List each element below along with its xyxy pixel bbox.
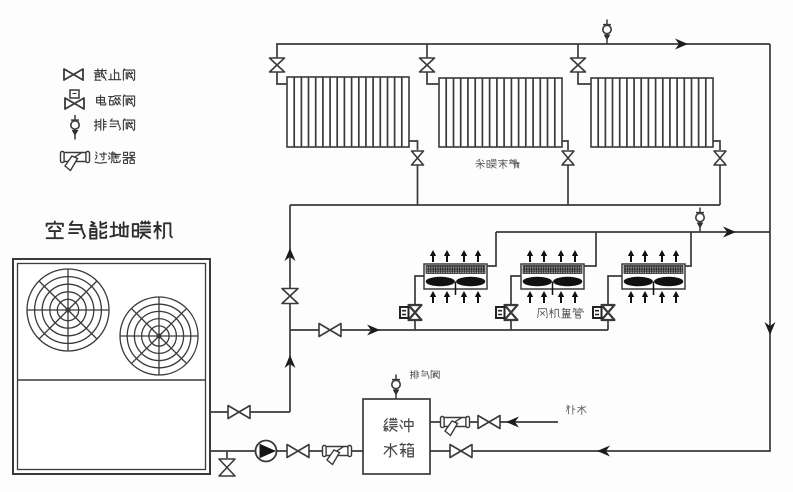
wire: fan-coil return header [496,231,770,233]
legend label 排气阀 [94,119,134,131]
flow arrow down on right pipe [765,322,776,335]
valve: drain [219,459,235,476]
wire: drain stub [226,451,228,458]
wire: radiator bottom header [290,204,720,206]
solenoid valve: fan-coil 3 [593,305,615,320]
radiator 1 [287,77,409,147]
valve: radiator 1 inlet [270,58,288,84]
valve: fan-coil supply [319,324,341,337]
buffer tank 缓冲水箱 [363,399,430,474]
legend symbol: filter [61,152,90,171]
wire: fan-coil 3 riser [685,232,691,266]
air-source heat pump unit box [13,259,210,474]
radiator 3 [591,78,713,147]
wire: fan-coil 1 feed [415,276,424,330]
tank label 水箱 [384,443,413,457]
flow arrow on fan-coil header [723,227,736,238]
wire: radiator 3 inlet drop [577,44,579,58]
wire: fan-coil 2 riser [584,232,596,266]
air vent on top header [603,20,611,45]
valve: pump discharge [287,445,309,458]
filter: return line [323,446,352,465]
flow arrow left on bottom return [597,446,610,457]
legend symbol: air vent valve [71,115,79,140]
wire: heat pump return pipe [210,450,363,452]
label 采暖末端 [476,159,519,169]
valve: riser [282,289,298,304]
wire: fan-coil supply line [290,329,608,331]
circulation pump [256,441,277,462]
valve: tank return inlet [450,445,472,458]
valve: radiator 2 inlet [420,58,440,84]
heat pump fan 1 [27,269,109,351]
legend label 电磁阀 [97,95,135,107]
air vent on fan-coil header [696,208,704,233]
label 补水 [566,405,586,414]
wire: radiator 2 outlet [562,141,568,150]
solenoid valve: fan-coil 1 [400,305,422,320]
valve: radiator 1 outlet [412,151,424,205]
flow arrow on top header [675,39,688,50]
wire: radiator 1 outlet [409,141,418,150]
wire: fan-coil 3 feed [608,276,622,330]
filter: makeup line [441,417,470,436]
fan-coil unit 2 [521,250,584,303]
wire: heat pump supply pipe [210,411,290,413]
wire: right return pipe [430,44,770,451]
wire: radiator top header [277,44,770,58]
tank label 缓冲 [384,418,413,432]
radiator 2 [439,78,562,147]
air vent on tank [392,375,400,400]
valve: makeup line [478,416,500,429]
wire: radiator 2 inlet drop [426,44,428,58]
legend label 过滤器 [95,152,135,164]
wire: makeup water line [430,421,558,423]
title 空气能地暖机 [47,221,172,238]
wire: radiator 3 outlet [713,141,720,150]
flow arrow on fan-coil supply [367,325,380,336]
label 风机盘管 [538,308,584,318]
legend symbol: solenoid valve [65,90,84,109]
wire: fan-coil 2 feed [511,276,521,330]
legend symbol: stop valve [64,69,83,80]
valve: radiator 2 outlet [562,151,574,205]
fan-coil unit 1 [424,250,487,303]
flow arrow makeup water [506,417,519,428]
solenoid valve: fan-coil 2 [496,305,518,320]
heat pump fan 2 [120,297,198,375]
valve: heat pump supply [228,406,250,419]
wire: main riser [289,205,291,412]
label 排气阀 (tank vent) [410,370,439,379]
valve: radiator 3 outlet [714,151,726,205]
fan-coil unit 3 [622,250,685,303]
flow arrow up on riser (upper) [285,248,296,261]
flow arrow up on riser (lower) [285,355,296,368]
valve: radiator 3 inlet [571,58,592,84]
wire: fan-coil 1 riser [487,232,496,266]
legend label 截止阀 [94,69,134,81]
